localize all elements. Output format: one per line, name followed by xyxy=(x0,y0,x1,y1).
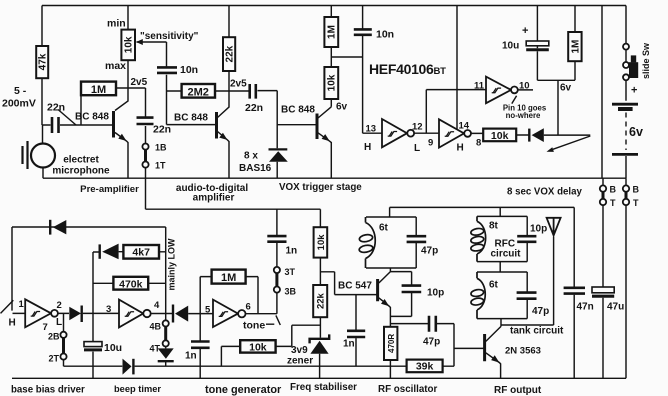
svg-text:BAS16: BAS16 xyxy=(239,163,272,174)
svg-text:T: T xyxy=(610,198,616,208)
svg-text:3T: 3T xyxy=(285,267,296,277)
svg-text:200mV: 200mV xyxy=(2,98,36,110)
svg-text:5 -: 5 - xyxy=(14,85,27,97)
svg-text:1M: 1M xyxy=(327,25,338,39)
svg-text:4: 4 xyxy=(154,300,160,311)
svg-text:B: B xyxy=(633,185,640,195)
svg-text:slide Sw: slide Sw xyxy=(641,42,651,79)
svg-text:22n: 22n xyxy=(245,102,263,114)
svg-text:1M: 1M xyxy=(221,272,236,284)
svg-text:1M: 1M xyxy=(570,40,581,54)
svg-text:2T: 2T xyxy=(49,354,60,364)
svg-text:tank circuit: tank circuit xyxy=(510,326,564,337)
svg-text:12: 12 xyxy=(412,122,423,133)
svg-text:zener: zener xyxy=(287,356,313,367)
svg-text:H: H xyxy=(457,143,464,154)
svg-text:+: + xyxy=(522,25,528,37)
svg-text:1T: 1T xyxy=(155,161,166,171)
svg-text:microphone: microphone xyxy=(52,166,110,177)
svg-text:10p: 10p xyxy=(427,288,444,299)
svg-text:Freq stabiliser: Freq stabiliser xyxy=(290,382,357,393)
svg-text:2v5: 2v5 xyxy=(131,77,148,88)
svg-text:1: 1 xyxy=(19,299,25,310)
svg-text:BC 848: BC 848 xyxy=(75,112,109,123)
svg-text:beep timer: beep timer xyxy=(114,384,161,394)
svg-text:8: 8 xyxy=(476,138,481,149)
svg-text:amplifier: amplifier xyxy=(193,193,235,204)
svg-text:14: 14 xyxy=(459,121,470,132)
svg-text:22k: 22k xyxy=(316,292,327,309)
svg-text:6t: 6t xyxy=(379,223,389,234)
svg-text:2: 2 xyxy=(57,300,62,311)
svg-text:2v5: 2v5 xyxy=(230,79,247,90)
svg-text:B: B xyxy=(610,185,617,195)
svg-text:max: max xyxy=(105,60,126,72)
svg-text:10k: 10k xyxy=(249,342,267,354)
svg-text:47p: 47p xyxy=(423,337,440,348)
svg-text:10k: 10k xyxy=(316,234,327,251)
svg-text:6t: 6t xyxy=(489,280,499,291)
svg-text:mainly LOW: mainly LOW xyxy=(167,238,177,291)
svg-text:3B: 3B xyxy=(285,287,297,297)
svg-text:min: min xyxy=(107,18,126,30)
svg-text:base bias driver: base bias driver xyxy=(11,385,85,396)
svg-text:electret: electret xyxy=(63,155,99,166)
svg-text:+: + xyxy=(631,85,637,97)
svg-text:H: H xyxy=(364,142,371,153)
svg-text:470k: 470k xyxy=(119,279,143,291)
svg-text:10u: 10u xyxy=(502,41,519,52)
svg-text:4B: 4B xyxy=(150,322,162,332)
svg-text:7: 7 xyxy=(43,322,48,333)
svg-text:10n: 10n xyxy=(376,29,394,41)
svg-text:10n: 10n xyxy=(180,64,198,76)
svg-text:10u: 10u xyxy=(104,342,122,354)
svg-text:47p: 47p xyxy=(532,306,549,317)
svg-text:"sensitivity": "sensitivity" xyxy=(140,31,199,42)
svg-text:2B: 2B xyxy=(48,332,60,342)
svg-text:10p: 10p xyxy=(530,224,547,235)
svg-text:RF oscillator: RF oscillator xyxy=(378,384,438,395)
svg-text:RF output: RF output xyxy=(494,385,542,396)
svg-text:470R: 470R xyxy=(387,334,396,353)
svg-text:22n: 22n xyxy=(47,102,65,114)
svg-text:tone generator: tone generator xyxy=(205,384,282,396)
svg-text:39k: 39k xyxy=(416,361,434,373)
svg-text:4T: 4T xyxy=(150,344,161,354)
svg-text:1n: 1n xyxy=(286,246,298,257)
svg-text:8 x: 8 x xyxy=(244,151,258,162)
svg-text:8t: 8t xyxy=(489,221,499,232)
svg-text:10: 10 xyxy=(519,81,530,92)
svg-text:circuit: circuit xyxy=(491,249,522,260)
svg-text:6v: 6v xyxy=(336,102,348,113)
svg-text:10k: 10k xyxy=(327,74,338,91)
svg-text:2M2: 2M2 xyxy=(187,86,208,98)
svg-text:4k7: 4k7 xyxy=(132,247,150,259)
svg-text:3: 3 xyxy=(106,304,111,315)
svg-text:8 sec VOX delay: 8 sec VOX delay xyxy=(507,187,582,198)
svg-text:BC 848: BC 848 xyxy=(174,113,208,124)
svg-text:L: L xyxy=(56,317,62,328)
svg-text:1n: 1n xyxy=(343,339,355,350)
svg-text:11: 11 xyxy=(474,81,485,92)
svg-text:BC 848: BC 848 xyxy=(281,105,315,116)
svg-text:47n: 47n xyxy=(577,302,594,313)
svg-text:2N 3563: 2N 3563 xyxy=(505,346,541,357)
svg-text:47k: 47k xyxy=(38,53,49,70)
svg-text:BC 547: BC 547 xyxy=(338,281,372,292)
svg-text:22k: 22k xyxy=(225,45,236,62)
svg-text:VOX trigger stage: VOX trigger stage xyxy=(279,182,362,193)
svg-text:47u: 47u xyxy=(607,302,624,313)
svg-text:H: H xyxy=(9,318,16,329)
svg-text:1M: 1M xyxy=(91,84,106,96)
svg-text:1n: 1n xyxy=(185,351,197,362)
svg-text:47p: 47p xyxy=(421,246,438,257)
svg-text:Pre-amplifier: Pre-amplifier xyxy=(80,184,139,195)
svg-text:no-where: no-where xyxy=(506,111,541,120)
svg-text:9: 9 xyxy=(428,138,433,149)
svg-text:tone: tone xyxy=(243,320,265,332)
svg-text:6v: 6v xyxy=(629,125,643,139)
svg-text:T: T xyxy=(633,198,639,208)
svg-text:6: 6 xyxy=(246,302,251,313)
svg-text:13: 13 xyxy=(366,124,377,135)
svg-text:6v: 6v xyxy=(560,83,572,94)
svg-text:L: L xyxy=(414,143,420,154)
svg-text:10k: 10k xyxy=(491,130,509,142)
svg-text:5: 5 xyxy=(205,305,211,316)
svg-text:10k: 10k xyxy=(124,36,135,53)
svg-text:3v9: 3v9 xyxy=(291,345,308,356)
svg-text:22n: 22n xyxy=(153,124,171,136)
svg-text:1B: 1B xyxy=(155,143,167,153)
